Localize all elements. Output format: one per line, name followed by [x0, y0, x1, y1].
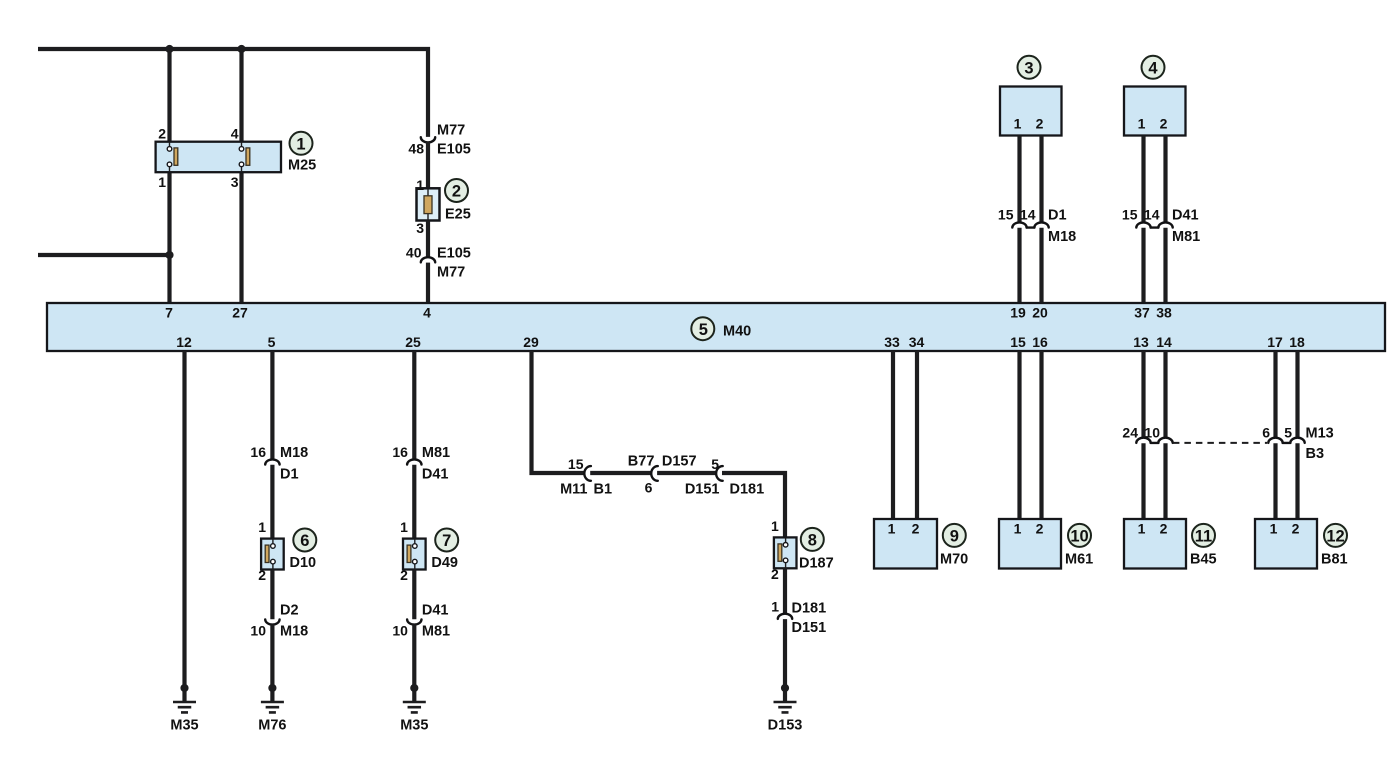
svg-text:2: 2: [158, 126, 166, 142]
wire branch A lower through junction to M40 pin 7: [167, 172, 171, 304]
callout 12: [1324, 524, 1347, 547]
svg-text:B77: B77: [628, 454, 655, 470]
wire pin16: [1039, 351, 1043, 519]
svg-text:10: 10: [1070, 527, 1088, 545]
svg-text:M77: M77: [437, 123, 465, 139]
callout 11: [1192, 524, 1215, 547]
ground M76: [258, 702, 286, 734]
callout 2: [445, 179, 468, 202]
wire pin14 upper: [1163, 351, 1167, 438]
svg-text:14: 14: [1020, 207, 1036, 223]
svg-text:13: 13: [1133, 334, 1149, 350]
svg-text:2: 2: [1036, 116, 1044, 132]
svg-text:D153: D153: [768, 718, 803, 734]
svg-text:8: 8: [808, 531, 817, 549]
svg-text:1: 1: [400, 519, 408, 535]
wire pin29 down and right: [532, 351, 585, 473]
svg-text:M35: M35: [170, 718, 198, 734]
svg-text:3: 3: [416, 220, 424, 236]
callout 10: [1068, 524, 1091, 547]
wire pin13 lower: [1141, 443, 1145, 519]
svg-text:1: 1: [258, 519, 266, 535]
svg-text:D151: D151: [792, 620, 827, 636]
svg-text:7: 7: [442, 532, 451, 550]
svg-text:D41: D41: [422, 467, 449, 483]
svg-text:M61: M61: [1065, 552, 1093, 568]
svg-text:D1: D1: [1048, 208, 1067, 224]
svg-text:2: 2: [1160, 116, 1168, 132]
callout 9: [943, 524, 966, 547]
svg-text:27: 27: [232, 305, 248, 321]
svg-text:24: 24: [1122, 425, 1138, 441]
dashed link same connector: [1173, 442, 1267, 444]
svg-text:7: 7: [165, 305, 173, 321]
wire D49 out: [412, 570, 416, 620]
svg-text:38: 38: [1156, 305, 1172, 321]
wire to D187: [722, 473, 785, 538]
svg-text:16: 16: [250, 444, 266, 460]
svg-text:M81: M81: [422, 445, 450, 461]
svg-text:M18: M18: [280, 445, 308, 461]
svg-text:10: 10: [392, 623, 408, 639]
svg-text:2: 2: [1292, 521, 1300, 537]
callout 6: [293, 529, 316, 552]
connector M77/E105 pin 48: [408, 123, 470, 158]
svg-text:1: 1: [296, 135, 305, 153]
callout 3: [1018, 56, 1041, 79]
svg-text:6: 6: [300, 532, 309, 550]
svg-text:M76: M76: [258, 718, 286, 734]
svg-text:6: 6: [1262, 425, 1270, 441]
fuse E25: [417, 188, 440, 220]
wire pin5 upper: [270, 351, 274, 460]
unit box 10 M61: [999, 519, 1061, 569]
svg-text:25: 25: [405, 334, 421, 350]
svg-text:D157: D157: [662, 454, 697, 470]
svg-text:4: 4: [423, 305, 431, 321]
junction dot ground M76: [268, 684, 276, 692]
svg-text:E25: E25: [445, 207, 471, 223]
svg-text:B3: B3: [1306, 446, 1325, 462]
wire pin12 to ground: [182, 351, 186, 701]
svg-text:40: 40: [406, 245, 422, 261]
svg-text:M81: M81: [422, 624, 450, 640]
wire to ground D153: [783, 619, 787, 701]
svg-text:5: 5: [711, 456, 719, 472]
unit box 9 M70: [874, 519, 937, 569]
ground D153: [768, 702, 803, 734]
callout 8: [801, 528, 824, 551]
svg-text:M77: M77: [437, 265, 465, 281]
wire pin33: [891, 351, 895, 519]
junction dot ground M35a: [180, 684, 188, 692]
svg-text:12: 12: [1326, 527, 1344, 545]
unit box 11 B45: [1124, 519, 1186, 569]
ground M35 left: [170, 702, 198, 734]
wire pin18 lower: [1295, 443, 1299, 519]
connector D151/D181 pin 5: [685, 456, 764, 498]
junction dot ground D153: [781, 684, 789, 692]
svg-text:48: 48: [408, 141, 424, 157]
svg-text:1: 1: [771, 599, 779, 615]
svg-text:D41: D41: [422, 603, 449, 619]
svg-text:15: 15: [998, 207, 1014, 223]
unit box 4: [1124, 87, 1186, 136]
svg-text:15: 15: [1122, 207, 1138, 223]
wire D187 out: [783, 568, 787, 614]
wire unit4 pin1 upper: [1141, 136, 1145, 223]
svg-text:1: 1: [158, 174, 166, 190]
svg-text:5: 5: [268, 334, 276, 350]
svg-text:19: 19: [1010, 305, 1026, 321]
svg-text:5: 5: [699, 321, 708, 339]
svg-text:M70: M70: [940, 552, 968, 568]
svg-text:D181: D181: [730, 482, 765, 498]
svg-text:4: 4: [231, 126, 239, 142]
wire to D10: [270, 465, 274, 539]
connector B77/D157 pin 6: [628, 454, 697, 496]
connector D41/M81 pins 15,14: [1122, 207, 1200, 246]
wire to ground M76: [270, 624, 274, 701]
svg-text:D10: D10: [290, 555, 317, 571]
svg-text:B81: B81: [1321, 552, 1348, 568]
svg-text:D187: D187: [799, 556, 834, 572]
wire to M40 pin 4: [426, 263, 430, 303]
wire pin14 lower: [1163, 443, 1167, 519]
wire unit4 pin2 upper: [1163, 136, 1167, 223]
svg-text:M11: M11: [560, 482, 587, 498]
svg-text:1: 1: [1270, 521, 1278, 537]
connector M13/B3 pins 6,5: [1262, 425, 1334, 463]
callout 7: [435, 529, 458, 552]
svg-text:29: 29: [523, 334, 539, 350]
svg-text:16: 16: [1032, 334, 1048, 350]
svg-text:3: 3: [231, 174, 239, 190]
diode unit D49: [403, 539, 426, 570]
svg-text:2: 2: [771, 566, 779, 582]
svg-text:2: 2: [1036, 521, 1044, 537]
svg-text:15: 15: [1010, 334, 1026, 350]
svg-text:2: 2: [1160, 521, 1168, 537]
wire unit3 pin2 lower: [1039, 228, 1043, 303]
svg-text:2: 2: [452, 183, 461, 201]
svg-text:M13: M13: [1306, 426, 1334, 442]
svg-text:M25: M25: [288, 158, 316, 174]
wire fuse feed: [426, 142, 430, 189]
junction dot bus A: [165, 45, 173, 53]
svg-text:1: 1: [1014, 116, 1022, 132]
wire segment D157 to D151: [657, 471, 716, 475]
svg-text:11: 11: [1195, 527, 1212, 545]
wire unit4 pin2 lower: [1163, 228, 1167, 303]
wire unit3 pin2 upper: [1039, 136, 1043, 223]
wire second feed horizontal: [38, 253, 170, 257]
svg-text:M81: M81: [1172, 229, 1200, 245]
wire branch B upper: [239, 49, 243, 142]
svg-text:M18: M18: [1048, 229, 1076, 245]
diode unit D10: [261, 539, 284, 570]
svg-text:M18: M18: [280, 624, 308, 640]
unit box 3: [1000, 87, 1062, 136]
svg-text:2: 2: [258, 567, 266, 583]
wire pin13 upper: [1141, 351, 1145, 438]
connector E105/M77 pin 40: [406, 245, 471, 281]
svg-text:15: 15: [568, 456, 584, 472]
wire pin18 upper: [1295, 351, 1299, 438]
junction dot bus B: [237, 45, 245, 53]
svg-text:14: 14: [1144, 207, 1160, 223]
svg-text:1: 1: [771, 518, 779, 534]
svg-text:17: 17: [1267, 334, 1283, 350]
svg-text:10: 10: [250, 623, 266, 639]
svg-text:D181: D181: [792, 601, 827, 617]
connector D1/M18 pins 15,14: [998, 207, 1076, 246]
wire D10 out: [270, 570, 274, 620]
wire top bus horizontal + corner down to fuse branch: [38, 49, 428, 137]
svg-text:B1: B1: [594, 482, 613, 498]
wire to ground M35b: [412, 624, 416, 701]
wire unit3 pin1 lower: [1017, 228, 1021, 303]
svg-text:37: 37: [1134, 305, 1150, 321]
svg-text:1: 1: [1138, 521, 1146, 537]
callout 5: [691, 317, 714, 340]
svg-text:16: 16: [392, 444, 408, 460]
svg-text:2: 2: [400, 567, 408, 583]
callout 4: [1142, 56, 1165, 79]
wire pin34: [915, 351, 919, 519]
wire pin17 upper: [1273, 351, 1277, 438]
svg-text:E105: E105: [437, 142, 471, 158]
wire pin25 upper: [412, 351, 416, 460]
svg-text:12: 12: [176, 334, 192, 350]
svg-text:M40: M40: [723, 324, 751, 340]
svg-text:1: 1: [1014, 521, 1022, 537]
wire pin15: [1017, 351, 1021, 519]
junction dot feed A: [165, 251, 173, 259]
svg-text:3: 3: [1024, 59, 1033, 77]
svg-text:M35: M35: [400, 718, 428, 734]
connector M11/B1 pin 15: [560, 456, 612, 498]
diode unit D187: [774, 537, 797, 568]
callout 1: [290, 132, 313, 155]
connector M18/D1 pin 16: [250, 444, 308, 483]
connector D181/D151 pin 1: [771, 599, 826, 637]
junction block M40: [47, 303, 1385, 351]
switch unit M25: [156, 142, 281, 173]
wire segment B1 to B77: [590, 471, 651, 475]
connector pins 24,10: [1122, 425, 1172, 443]
svg-text:D49: D49: [431, 555, 458, 571]
ground M35 right: [400, 702, 428, 734]
svg-text:20: 20: [1032, 305, 1048, 321]
connector M81/D41 pin 16: [392, 444, 450, 483]
unit box 12 B81: [1255, 519, 1317, 569]
wire to D49: [412, 465, 416, 539]
svg-text:10: 10: [1144, 425, 1160, 441]
svg-text:B45: B45: [1190, 552, 1217, 568]
svg-text:4: 4: [1148, 59, 1158, 77]
svg-text:D41: D41: [1172, 208, 1199, 224]
svg-text:34: 34: [909, 334, 925, 350]
wire fuse out: [426, 220, 430, 257]
svg-text:1: 1: [1138, 116, 1146, 132]
connector D2/M18 pin 10: [250, 603, 308, 640]
wire branch A upper: [167, 49, 171, 142]
svg-text:9: 9: [950, 527, 959, 545]
junction dot ground M35b: [410, 684, 418, 692]
connector D41/M81 pin 10: [392, 603, 450, 640]
svg-text:D1: D1: [280, 467, 299, 483]
svg-text:D151: D151: [685, 482, 720, 498]
svg-text:2: 2: [912, 521, 920, 537]
wire branch B lower to M40 pin 27: [239, 172, 243, 304]
svg-text:14: 14: [1156, 334, 1172, 350]
svg-text:1: 1: [888, 521, 896, 537]
wire unit4 pin1 lower: [1141, 228, 1145, 303]
svg-text:33: 33: [884, 334, 900, 350]
svg-text:D2: D2: [280, 603, 299, 619]
svg-text:5: 5: [1284, 425, 1292, 441]
svg-text:18: 18: [1289, 334, 1305, 350]
wire pin17 lower: [1273, 443, 1277, 519]
svg-text:E105: E105: [437, 246, 471, 262]
svg-text:6: 6: [645, 480, 653, 496]
svg-text:1: 1: [416, 177, 424, 193]
wire unit3 pin1 upper: [1017, 136, 1021, 223]
